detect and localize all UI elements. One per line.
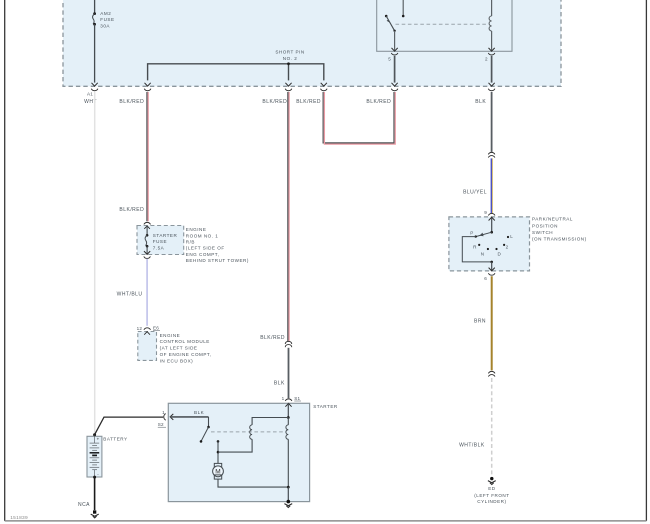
node fuse bottom (146, 245, 149, 248)
ground ED (490, 477, 493, 480)
wire pull-in coil bottom (218, 439, 252, 452)
svg-text:NO. 2: NO. 2 (283, 56, 298, 61)
wire BLK to starter (288, 348, 290, 398)
svg-text:ENGINE: ENGINE (160, 333, 181, 338)
fuse AM2 element (93, 14, 95, 25)
connector cup at switch pin 9 (488, 213, 495, 215)
boundary arrow BLK/RED 2 (285, 83, 292, 91)
boundary arrow BLK/RED 3 (321, 83, 328, 91)
motor M brush bottom (214, 475, 221, 479)
relay mechanical link (dashed) (396, 23, 487, 25)
node blade pivot (490, 231, 493, 234)
svg-text:BLK: BLK (274, 381, 285, 387)
starter fuse connector cup (144, 222, 151, 224)
svg-text:STARTER: STARTER (313, 404, 338, 409)
wire into fuse (144, 226, 150, 229)
node relay blade lower contact (393, 30, 395, 32)
solenoid mechanical link (dashed) (211, 431, 286, 433)
svg-text:(LEFT SIDE OF: (LEFT SIDE OF (186, 246, 225, 251)
svg-text:BLU/YEL: BLU/YEL (463, 190, 487, 196)
switch pin 6 exit arrow (489, 268, 495, 271)
wire motor branch (217, 441, 219, 463)
node contact 2 (503, 244, 505, 246)
node contact L (507, 236, 509, 238)
node battery positive terminal (93, 433, 96, 436)
wire pin 5 to boundary (394, 56, 396, 83)
svg-text:PARK/NEUTRAL: PARK/NEUTRAL (532, 217, 573, 222)
svg-text:P: P (470, 231, 473, 236)
S2 connector cup (164, 414, 166, 421)
S2 entry arrow (170, 414, 173, 420)
wire fuse to boundary A1 (94, 24, 96, 82)
svg-text:WHT/BLU: WHT/BLU (117, 291, 143, 297)
svg-text:ENGINE: ENGINE (186, 227, 207, 232)
svg-text:BLK/RED: BLK/RED (366, 99, 391, 105)
wire pull-in coil top (252, 418, 288, 425)
starter fuse F2 box (137, 226, 184, 255)
svg-text:(LEFT FRONT: (LEFT FRONT (474, 493, 509, 498)
node blade end (200, 440, 203, 443)
svg-text:1: 1 (162, 410, 165, 415)
node contact N (487, 248, 489, 250)
svg-text:OF ENGINE COMPT,: OF ENGINE COMPT, (160, 352, 212, 357)
boundary arrow BLK (488, 83, 495, 91)
wire pin 9 to blade pivot (491, 218, 493, 232)
svg-text:1: 1 (282, 396, 285, 401)
fuse STARTER element (145, 235, 147, 246)
svg-text:7.5A: 7.5A (153, 245, 165, 250)
svg-text:E6: E6 (153, 325, 159, 330)
node short pin junction (287, 62, 290, 65)
splice connector pair (488, 371, 495, 376)
svg-text:S2: S2 (158, 422, 164, 427)
node fuse top (93, 12, 96, 15)
relay coil (489, 16, 492, 31)
wire pin 2 to boundary (491, 56, 493, 83)
wire hold-in coil to ground bus (287, 439, 289, 487)
svg-text:BLK/RED: BLK/RED (119, 207, 144, 213)
pull-in coil (250, 425, 252, 439)
svg-text:AM2: AM2 (100, 11, 111, 16)
svg-text:R/B: R/B (186, 240, 195, 245)
wire P contact to output (462, 237, 491, 262)
wire battery to starter S2 (95, 417, 164, 435)
boundary arrow BLK/RED 4 (391, 83, 398, 91)
ground starter body (287, 500, 291, 504)
svg-text:WHT/BLK: WHT/BLK (459, 442, 485, 448)
pin 6 cup (488, 273, 495, 275)
node coil junction (287, 416, 290, 419)
motor M brush top (214, 463, 221, 467)
svg-text:2: 2 (485, 57, 488, 62)
svg-text:BLK/RED: BLK/RED (119, 99, 144, 105)
node motor branch top (217, 440, 220, 443)
svg-text:STARTER: STARTER (153, 233, 178, 238)
battery plates (90, 436, 100, 478)
svg-text:6: 6 (484, 276, 487, 281)
svg-text:D: D (498, 251, 502, 256)
relay pin 5 cup (391, 53, 398, 55)
node contact P (475, 235, 477, 237)
svg-text:9: 9 (484, 210, 487, 215)
svg-text:30A: 30A (100, 23, 110, 28)
svg-text:ED: ED (488, 486, 496, 491)
wire BLK/RED U-link pin5 to short pin (323, 92, 395, 144)
svg-text:POSITION: POSITION (532, 223, 558, 228)
wire hold-in coil top (287, 418, 289, 425)
wire BLK/RED to starter S1 (288, 92, 289, 341)
wire WHT/BLK (dashed) to ground (491, 378, 493, 477)
wire S1 pin to coil junction (287, 403, 289, 417)
battery B1 (87, 436, 102, 477)
node main contact top (207, 426, 210, 429)
svg-text:S1: S1 (294, 396, 300, 401)
svg-text:(ON TRANSMISSION): (ON TRANSMISSION) (532, 237, 587, 242)
svg-text:5: 5 (388, 57, 391, 62)
svg-text:12: 12 (137, 326, 143, 331)
relay switch blade (386, 16, 394, 31)
wire BLK/RED to starter fuse (147, 92, 148, 221)
svg-text:FUSE: FUSE (100, 17, 114, 22)
wire WHT junction block to battery (94, 92, 96, 434)
starter S1 entry arrow (285, 403, 291, 406)
node relay fixed contact (402, 15, 405, 18)
wire battery to ground (94, 477, 96, 510)
svg-text:BLK: BLK (475, 99, 486, 105)
boundary arrow A1 (91, 83, 98, 91)
svg-text:IN ECU BOX): IN ECU BOX) (160, 358, 194, 363)
fuse exit cup (144, 256, 151, 258)
svg-text:NCA: NCA (78, 502, 90, 508)
hold-in coil (286, 425, 288, 439)
wire motor to ground bus (218, 479, 288, 487)
starter main contact blade (201, 427, 209, 441)
svg-text:A1: A1 (87, 91, 93, 96)
wire output to pin 6 (491, 262, 493, 271)
svg-text:BRN: BRN (474, 318, 486, 324)
relay pin 2 exit arrow (489, 48, 495, 51)
svg-text:BLK: BLK (194, 410, 205, 415)
node fuse top (146, 234, 149, 237)
node battery negative terminal (93, 476, 96, 479)
engine control module box (138, 332, 157, 361)
ECM entry arrow (144, 332, 150, 335)
starter M1 box (168, 403, 309, 501)
wire to relay fixed contact (402, 0, 404, 16)
wire fuse to exit (146, 246, 148, 254)
fuse F1 AM2 feed wire (94, 0, 96, 14)
wire WHT/BLU to ECM (146, 259, 148, 326)
relay pin 5 exit arrow (392, 48, 398, 51)
node fuse bottom (93, 23, 96, 26)
svg-text:151839: 151839 (10, 515, 28, 521)
wire BLU/YEL to park/neutral switch (491, 158, 492, 213)
wire relay coil to pin 2 (491, 31, 493, 51)
wire to relay coil (491, 0, 493, 16)
relay pin 2 cup (488, 53, 495, 55)
wire relay blade to pin 5 (394, 31, 396, 52)
park/neutral position switch box (449, 217, 530, 271)
wire BLK pin2 to splice (491, 92, 493, 152)
node motor branch junction (217, 451, 220, 454)
wire short pin middle drop (288, 64, 290, 81)
svg-text:FUSE: FUSE (153, 239, 167, 244)
svg-text:BLK/RED: BLK/RED (296, 99, 321, 105)
switch blade to P contact (476, 232, 492, 236)
svg-text:N: N (481, 251, 485, 256)
starter entry cup S1 (285, 399, 292, 401)
fuse exit arrow (144, 251, 150, 254)
svg-text:+: + (97, 436, 100, 441)
svg-text:SWITCH: SWITCH (532, 230, 553, 235)
node relay blade pivot (385, 15, 388, 18)
svg-text:CONTROL MODULE: CONTROL MODULE (160, 339, 210, 344)
svg-text:ENG COMPT,: ENG COMPT, (186, 252, 220, 257)
wire S2 to main contact (170, 416, 208, 418)
motor M (213, 466, 224, 477)
svg-text:(AT LEFT SIDE: (AT LEFT SIDE (160, 346, 198, 351)
node contact D (495, 248, 497, 250)
short pin no.2 bus wire (148, 64, 324, 81)
splice connector pair (488, 152, 495, 157)
svg-text:2: 2 (506, 245, 509, 250)
svg-text:BEHIND STRUT TOWER): BEHIND STRUT TOWER) (186, 258, 249, 263)
svg-text:L: L (510, 234, 513, 239)
junction block (big dashed blue region, top) (63, 0, 561, 86)
node ground bus junction (287, 486, 290, 489)
svg-text:R: R (473, 245, 477, 250)
node output junction (490, 261, 493, 264)
svg-text:BATTERY: BATTERY (103, 436, 127, 441)
svg-text:ROOM NO. 1: ROOM NO. 1 (186, 233, 219, 238)
node contact R (478, 244, 480, 246)
svg-text:BLK/RED: BLK/RED (260, 335, 285, 341)
ground battery (93, 510, 96, 513)
svg-text:BLK/RED: BLK/RED (262, 99, 287, 105)
svg-text:SHORT PIN: SHORT PIN (275, 50, 304, 55)
boundary arrow BLK/RED 1 (144, 83, 151, 91)
switch pin 9 entry arrow (489, 217, 495, 220)
svg-text:CYLINDER): CYLINDER) (477, 499, 506, 504)
splice BLK/RED to BLK (285, 341, 292, 347)
ECM entry cup (144, 328, 151, 330)
wire BRN (491, 276, 493, 370)
relay U1 box (starter relay) (377, 0, 512, 51)
wire to starter ground (287, 487, 289, 502)
